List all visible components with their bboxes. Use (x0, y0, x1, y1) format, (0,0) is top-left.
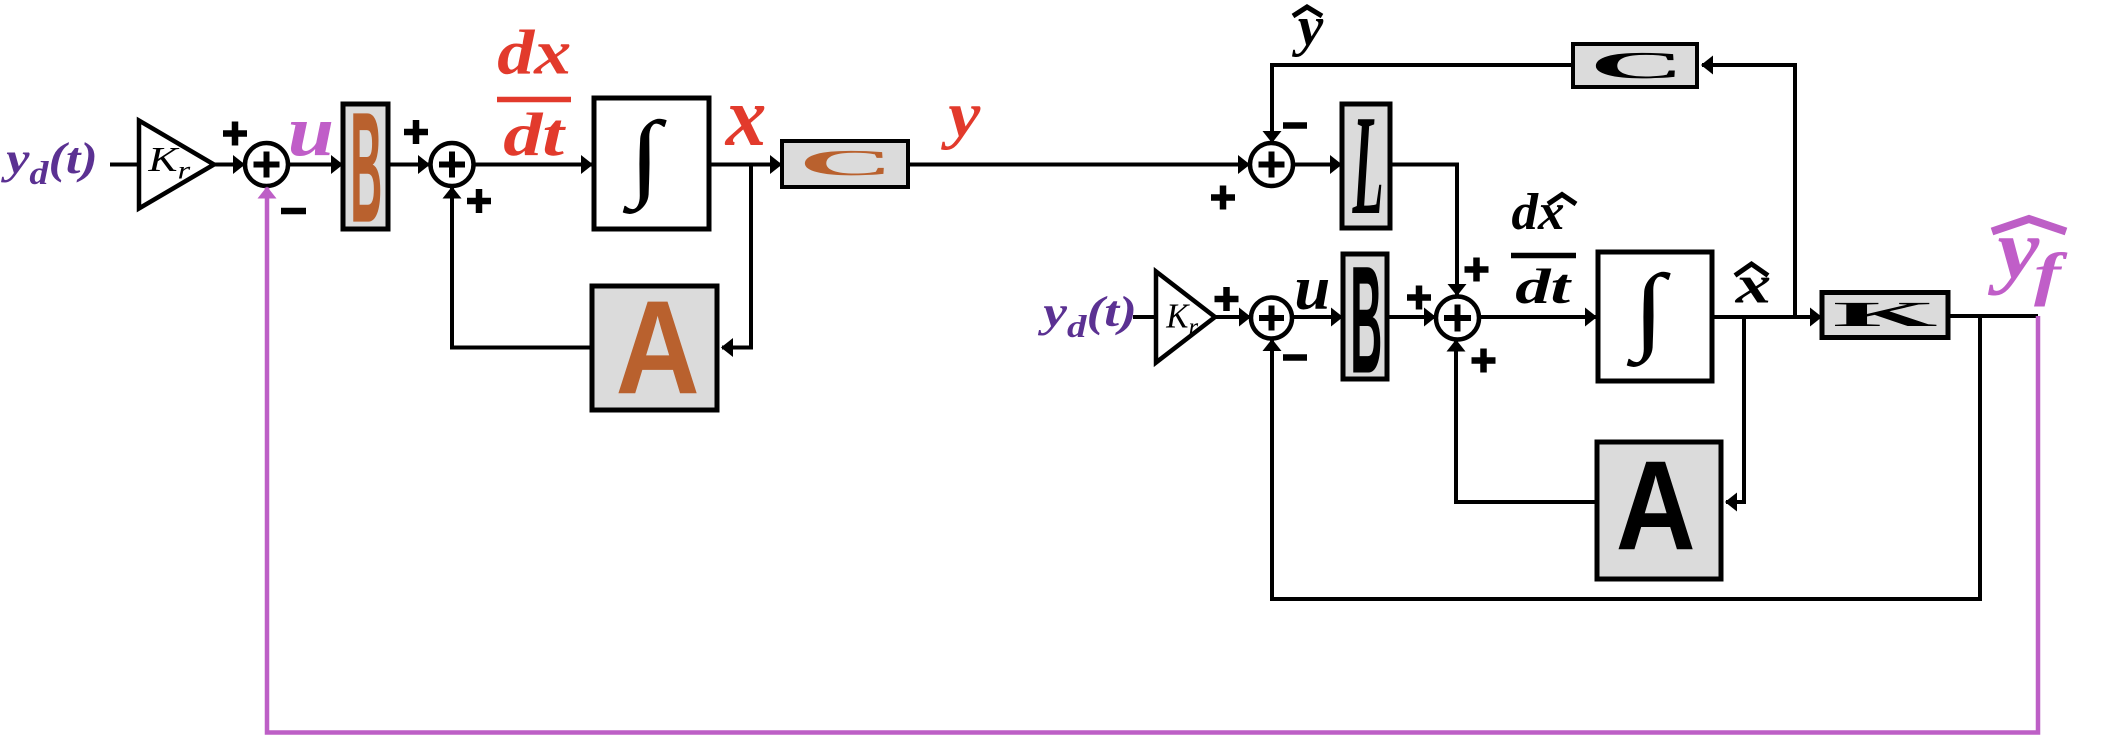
plus sign at S2 bottom input (467, 189, 491, 213)
svg-text:f: f (2034, 242, 2068, 307)
summer S1 (245, 143, 288, 186)
svg-text:B: B (350, 80, 382, 256)
label u (control input) magenta (288, 91, 334, 170)
svg-text:dx: dx (1512, 183, 1565, 241)
wire K to output node (1948, 314, 2038, 318)
summer S4 (1251, 298, 1292, 339)
plus sign at S5 top input (1465, 258, 1489, 282)
svg-text:y: y (941, 79, 981, 150)
node branch x to A1 (722, 165, 751, 348)
plus sign at S5 bottom input (1472, 349, 1496, 373)
svg-text:A: A (616, 273, 700, 422)
plus sign at S4 left input (1215, 287, 1239, 311)
label dt red denominator (503, 102, 567, 169)
svg-text:L: L (1352, 86, 1384, 245)
wire L to summer S5 (1390, 165, 1457, 296)
fraction bar dx/dt red (497, 97, 571, 103)
summer S2 (431, 143, 474, 186)
wire Kr2 to summer S4 (1215, 315, 1250, 319)
block B2 (observer input matrix) (1343, 254, 1387, 379)
wire S1 to block B1 (288, 163, 342, 167)
input label yd(t) right (1038, 288, 1137, 345)
svg-text:u: u (288, 91, 334, 170)
summer S5 (1436, 297, 1479, 340)
wire S3 to block L (1293, 163, 1341, 167)
label dx-hat numerator (1512, 183, 1565, 241)
label u black (observer input) (1294, 253, 1330, 323)
wire I1 to block C1 (709, 163, 781, 167)
wire A2 to S5 feedback (1456, 341, 1597, 503)
svg-text:dt: dt (1515, 260, 1572, 314)
block B1 (input matrix B) (343, 104, 388, 229)
block K (state feedback gain) (1822, 293, 1948, 338)
fraction bar dx-hat/dt (1511, 253, 1576, 259)
gain Kr2 triangle (1156, 272, 1215, 363)
minus sign at S1 bottom input (281, 208, 306, 215)
label dx red numerator (497, 18, 571, 88)
node branch x-hat down to A2 (1726, 317, 1744, 502)
block A2 (observer state matrix) (1597, 442, 1721, 579)
plus sign at S3 left input (1211, 186, 1235, 210)
label y-hat-f output magenta (1988, 202, 2041, 296)
block C1 (output matrix C) (782, 141, 908, 187)
svg-text:C: C (798, 143, 893, 183)
svg-text:dt: dt (503, 102, 567, 169)
gain Kr1 label (147, 140, 191, 185)
svg-text:x: x (724, 69, 767, 163)
wire A1 to S2 feedback (452, 188, 592, 348)
label dt denominator (1515, 260, 1572, 314)
wire yd(t) to gain Kr1 (110, 163, 140, 167)
svg-text:C: C (1589, 44, 1684, 86)
wire C2 to S3 (feedback of estimated output) (1272, 65, 1573, 142)
label y red output (941, 79, 981, 150)
wire S2 to integrator I1 (474, 163, 593, 167)
label y-hat estimated output (1292, 0, 1324, 58)
svg-text:∫: ∫ (1626, 256, 1671, 367)
minus sign at S3 top input (1283, 122, 1307, 129)
integrator I2 (1598, 252, 1712, 381)
wire I2 to block K (1712, 315, 1821, 319)
wire Kr1 to summer S1 (214, 163, 244, 167)
svg-text:dx: dx (497, 18, 571, 88)
wire S5 to integrator I2 (1479, 315, 1596, 319)
block A1 (state matrix A) (592, 286, 717, 410)
wire S4 to block B2 (1292, 315, 1342, 319)
wire y-hat-f feedback purple to S1 (minus) (267, 188, 2038, 733)
svg-text:yd(t): yd(t) (1038, 288, 1137, 345)
block C2 (observer output matrix) (1573, 44, 1697, 87)
plus sign at S1 top input (223, 122, 247, 146)
svg-text:yd(t): yd(t) (1, 133, 98, 191)
wire state feedback K to S4 (minus) (1272, 316, 1980, 599)
gain Kr2 label (1165, 298, 1198, 341)
minus sign at S4 bottom input (1283, 354, 1307, 361)
gain Kr1 triangle (139, 121, 214, 209)
block L (observer gain) (1342, 104, 1390, 228)
wire yd(t) to gain Kr2 (1133, 315, 1157, 319)
input label yd(t) left (1, 133, 98, 191)
wire x-hat branch to C2 input (1702, 65, 1795, 316)
label x red state (724, 69, 767, 163)
plus sign at S5 left input (1407, 286, 1431, 310)
integrator I1 (594, 98, 709, 229)
svg-text:B: B (1350, 234, 1382, 405)
wire B1 to summer S2 (388, 163, 429, 167)
label x-hat estimated state (1735, 254, 1772, 314)
wire C1 to summer S3 (908, 163, 1249, 167)
svg-text:K: K (1833, 295, 1938, 334)
summer S3 (1250, 143, 1293, 186)
wire B2 to summer S5 (1387, 315, 1435, 319)
svg-text:A: A (1616, 435, 1696, 577)
svg-text:u: u (1294, 253, 1330, 323)
svg-text:∫: ∫ (622, 103, 667, 214)
plus sign at S2 left input (404, 120, 428, 144)
